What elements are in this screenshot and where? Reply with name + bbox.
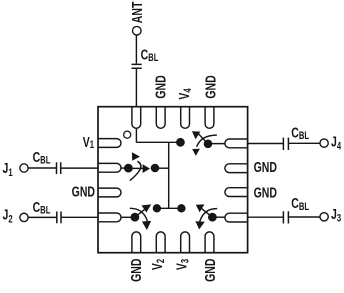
capacitor CBL (J2 series blocking cap) xyxy=(57,212,61,224)
capacitor CBL (J3 series blocking cap) xyxy=(283,211,288,223)
pin slot: right 3 (GND) xyxy=(225,188,247,197)
capacitor CBL (ANT series blocking cap) xyxy=(132,64,142,68)
switch SW2 motion arc xyxy=(130,208,148,221)
wire: CBL to J3 circle xyxy=(289,216,320,218)
switch SW4 wiper arrowhead xyxy=(192,131,201,139)
wire: central trunk xyxy=(168,142,170,208)
wire: J1 circle to CBL xyxy=(28,167,56,169)
svg-text:GND: GND xyxy=(152,75,169,98)
wire: SW1 inner contact to trunk xyxy=(155,167,169,169)
wire: bottom rail between SW2 and SW3 contacts xyxy=(157,207,182,209)
wire: CBL through left pin 2 to SW1 dot xyxy=(61,167,98,169)
port J2 terminal circle xyxy=(20,213,28,221)
wire: right pin 1 outside to CBL xyxy=(248,143,283,145)
switch SW1 wiper shaft (closed, J1 to trunk) xyxy=(128,167,143,169)
pin slot: top 4 (GND) xyxy=(205,108,214,129)
svg-text:GND: GND xyxy=(201,75,218,98)
wire: CBL down through top pin 1 to internal ANT line xyxy=(135,69,137,107)
pin slot: left 2 (J1) xyxy=(99,163,121,172)
wire: CBL to J4 circle xyxy=(289,142,320,144)
node: SW4 outer contact dot (J4) xyxy=(204,140,213,149)
wire: left pin 4 slot end to SW2 dot xyxy=(121,216,132,218)
wire: top pin 1 slot bottom down to internal ANT line corner xyxy=(135,128,137,142)
pin slot: left 4 (J2) xyxy=(99,213,121,222)
switch SW3 wiper shaft xyxy=(201,208,213,217)
pin slot: bottom 1 (GND) xyxy=(132,232,141,252)
svg-text:GND: GND xyxy=(127,259,144,282)
pin slot: right 2 (GND) xyxy=(225,164,247,173)
port J4 terminal circle xyxy=(320,139,328,147)
wire: SW4 dot through right pin 1 to CBL xyxy=(208,143,225,145)
capacitor CBL (J4 series blocking cap) xyxy=(283,138,288,150)
pin slot: bottom 4 (GND) xyxy=(205,232,214,252)
wire: left pin 2 slot end to SW1 dot xyxy=(121,167,128,169)
capacitor CBL (J1 series blocking cap) xyxy=(57,162,61,174)
switch SW3 motion arc xyxy=(200,209,218,222)
switch SW2 motion arrowhead xyxy=(142,221,151,230)
wire: J2 circle to CBL xyxy=(28,216,56,218)
switch SW2 wiper arrowhead xyxy=(142,204,152,212)
package U1 outline xyxy=(98,107,248,253)
switch SW4 motion arc xyxy=(197,135,217,147)
svg-text:GND: GND xyxy=(254,158,277,175)
switch SW4 motion arrowhead xyxy=(192,149,200,156)
switch SW1 motion arrowhead xyxy=(132,152,140,160)
port J3 terminal circle xyxy=(320,213,328,221)
wire: CBL through left pin 4 to SW2 dot xyxy=(61,216,98,218)
switch SW3 motion arrowhead xyxy=(195,221,204,229)
switch SW4 wiper shaft xyxy=(198,134,207,143)
wire: right pin 4 outside to CBL xyxy=(248,216,283,218)
wire: internal ANT horizontal line to SW4 contact xyxy=(136,141,180,143)
pin slot: right 4 (J3) xyxy=(225,213,247,222)
wire: ANT circle to CBL xyxy=(135,35,137,63)
switch SW1 wiper arrowhead xyxy=(143,164,150,173)
port J1 terminal circle xyxy=(20,164,28,172)
pin 1 indicator xyxy=(124,131,131,138)
svg-text:GND: GND xyxy=(201,259,218,282)
svg-text:GND: GND xyxy=(72,183,95,200)
pin slot: top 1 (ANT) xyxy=(132,108,141,129)
switch SW2 wiper shaft xyxy=(135,208,147,217)
node: SW1 outer contact dot (J1) xyxy=(124,164,133,173)
switch SW1 motion arc xyxy=(130,161,141,180)
port ANT terminal circle xyxy=(133,26,142,35)
node: SW3 outer contact dot (J3) xyxy=(208,213,217,222)
pin slot: left 3 (GND) xyxy=(99,188,121,197)
pin slot: top 3 (V4) xyxy=(181,108,190,129)
svg-text:ANT: ANT xyxy=(128,2,145,24)
pin slot: left 1 (V1) xyxy=(99,139,121,148)
switch SW3 wiper arrowhead xyxy=(196,204,205,212)
pin slot: top 2 (GND) xyxy=(156,108,165,129)
node: rail left contact dot xyxy=(153,204,161,212)
node: SW2 outer contact dot (J2) xyxy=(131,213,140,222)
svg-text:GND: GND xyxy=(254,184,277,201)
node: rail right contact dot xyxy=(177,204,185,212)
node: ANT line contact dot (SW4 inner) xyxy=(176,138,185,147)
pin slot: bottom 3 (V3) xyxy=(181,232,190,252)
wire: SW3 dot through right pin 4 to CBL xyxy=(212,216,224,218)
node: SW1 inner contact dot xyxy=(151,164,160,173)
pin slot: bottom 2 (V2) xyxy=(156,232,165,252)
pin slot: right 1 (J4) xyxy=(225,139,247,148)
